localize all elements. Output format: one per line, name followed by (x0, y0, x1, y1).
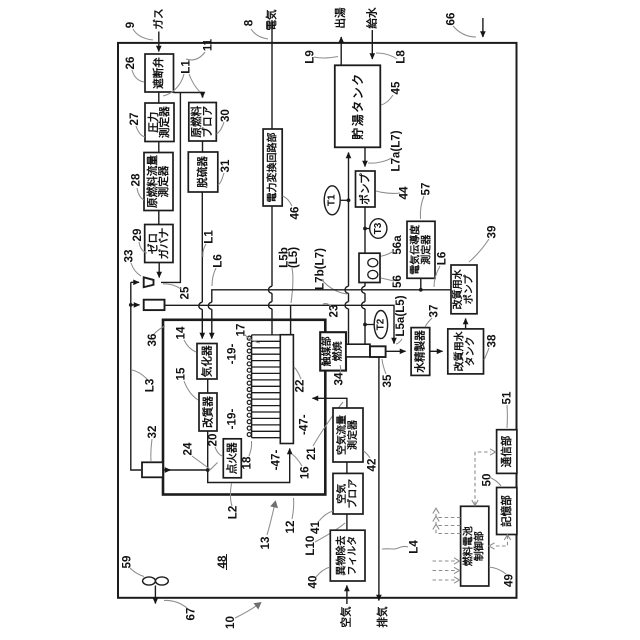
leader 12 (292, 498, 294, 519)
leader 50 (489, 477, 501, 486)
leader L1 to branch (189, 74, 200, 92)
leader 35 (382, 359, 386, 374)
svg-text:T1: T1 (327, 194, 338, 206)
wire L6 water line from pump 39 to vaporizer (212, 290, 451, 339)
wire L7a pump down to heat exchanger (bumps over L6,L5b) (364, 207, 366, 344)
wire 57 down to L6 (420, 278, 422, 289)
wire 37 to 38 (arrow) (430, 350, 443, 352)
svg-text:48: 48 (216, 555, 229, 568)
leader 13 (267, 501, 276, 535)
air flow meter box 42 空気流量測定器 (333, 408, 363, 462)
svg-text:31: 31 (219, 159, 232, 172)
svg-text:L1: L1 (180, 60, 193, 74)
heat exchanger neck (346, 344, 370, 357)
svg-text:45: 45 (390, 81, 403, 94)
svg-text:電力変換回路部: 電力変換回路部 (266, 133, 279, 203)
air filter box 32 (142, 462, 163, 477)
svg-text:改質用水: 改質用水 (453, 330, 466, 371)
leader 27 (136, 126, 145, 137)
svg-text:空気流量: 空気流量 (335, 415, 348, 455)
leader 15 (184, 381, 198, 400)
svg-text:電気伝導度: 電気伝導度 (408, 224, 421, 275)
leader 22 (294, 367, 301, 379)
svg-text:ポンプ: ポンプ (359, 173, 372, 205)
svg-text:出湯: 出湯 (334, 7, 347, 29)
wire L1 from 31 down into vaporizer 14 (bump over L5b) (201, 192, 203, 339)
svg-text:L5a(L5): L5a(L5) (394, 295, 407, 336)
svg-text:26: 26 (124, 56, 137, 69)
svg-text:30: 30 (219, 109, 232, 122)
leader 38 (484, 348, 489, 360)
svg-text:通信部: 通信部 (500, 435, 513, 467)
vaporizer box 14 気化器 (197, 344, 217, 380)
leader 25 (163, 284, 181, 289)
wire 14 to 15 (207, 379, 209, 393)
wire feed water L8 (arrow down into tank) (371, 30, 373, 59)
wire air feed into valve 33 from L3 (131, 281, 139, 283)
svg-text:L4: L4 (408, 540, 421, 554)
wire L7b return line heat exchanger to tank (bumps) (348, 154, 350, 345)
dashed link 49-50 (493, 536, 508, 547)
svg-text:38: 38 (486, 334, 499, 347)
reforming water pump box 39 改質用水ポンプ (451, 265, 477, 314)
svg-text:35: 35 (381, 374, 394, 387)
svg-text:18: 18 (241, 456, 254, 469)
svg-text:点火器: 点火器 (226, 442, 239, 474)
power conversion circuit box 46 電力変換回路部 (263, 129, 282, 206)
svg-text:測定器: 測定器 (158, 106, 171, 138)
svg-text:ポンプ: ポンプ (462, 274, 475, 305)
leader 56 (381, 278, 394, 281)
svg-text:9: 9 (124, 21, 137, 28)
leader 33 (131, 263, 141, 276)
leader 21 (313, 402, 343, 446)
svg-text:29: 29 (131, 228, 144, 241)
leader 59 (130, 568, 144, 577)
leader 36 (154, 326, 165, 334)
combustion catalyst box 34 燃焼触媒部 (320, 332, 346, 370)
fuel cell module case 12 (163, 320, 325, 495)
svg-text:測定器: 測定器 (157, 165, 170, 197)
leader 23 (323, 304, 331, 306)
leader 66 (453, 26, 476, 37)
svg-text:タンク: タンク (465, 336, 477, 366)
leader 14 (184, 340, 196, 352)
svg-text:L7a(L7): L7a(L7) (390, 130, 403, 171)
wire 26 to 27 (158, 92, 160, 103)
leader L1 to main line (163, 74, 184, 96)
exhaust port 35 (370, 346, 386, 357)
leader L6 (212, 268, 216, 286)
svg-text:17: 17 (235, 324, 248, 337)
sensor T2 (374, 311, 387, 339)
sensor T3 (370, 219, 387, 239)
leader L5a (396, 339, 402, 344)
svg-text:49: 49 (503, 574, 516, 587)
leader 45 (381, 95, 393, 105)
svg-text:L3: L3 (144, 378, 157, 392)
wire stub to T1 (340, 199, 349, 201)
svg-text:50: 50 (481, 474, 494, 487)
leader 41 (319, 511, 333, 521)
svg-text:21: 21 (305, 447, 318, 460)
zero governor box 29 ゼロガバナ (145, 225, 173, 263)
svg-text:57: 57 (420, 183, 433, 196)
node junction fuel/air mix (206, 468, 210, 472)
wire 41 to 42 (346, 462, 348, 473)
wire ignition air line from filter 32 (163, 469, 208, 471)
wire electric line from stack top to power converter (271, 20, 273, 129)
svg-text:記憶部: 記憶部 (500, 495, 513, 527)
leader 51 (506, 405, 508, 428)
igniter box 20 点火器 (223, 439, 241, 478)
svg-text:L8: L8 (395, 50, 408, 64)
leader L2 (230, 484, 232, 507)
wire air line from 42 into module (arrow left) (314, 398, 347, 408)
wire tank 38 to pump 39 (arrow up) (465, 319, 467, 329)
water purifier box 37 水精製器 (411, 328, 430, 376)
svg-text:22: 22 (294, 380, 307, 393)
leader 24 (192, 456, 218, 470)
svg-text:触媒部: 触媒部 (320, 336, 333, 367)
svg-text:燃焼: 燃焼 (331, 341, 344, 361)
node T1 junction (347, 198, 351, 202)
dashed link 49-51 (475, 452, 491, 505)
svg-text:T3: T3 (373, 222, 384, 234)
leader L7a (368, 158, 392, 163)
wire 27 to 28 (158, 142, 160, 153)
wire exhaust riser from stack top to L5b line (290, 305, 292, 334)
svg-text:32: 32 (146, 426, 159, 439)
wire tank to pump 44 (364, 147, 366, 166)
wire 29 down to nozzle 25 (arrow) (158, 263, 160, 278)
pressure meter box 27 圧力測定器 (145, 103, 174, 142)
leader 42 (364, 451, 371, 458)
svg-text:16: 16 (299, 466, 312, 479)
shutoff valve box 26 遮断弁 (145, 54, 174, 92)
leader L7b (322, 280, 347, 294)
svg-text:L7b(L7): L7b(L7) (314, 248, 327, 290)
svg-text:11: 11 (202, 38, 215, 51)
svg-text:L10: L10 (304, 536, 317, 556)
air blower box 41 空気ブロア (333, 473, 363, 514)
leader L9 (314, 57, 338, 59)
svg-text:T2: T2 (375, 318, 386, 330)
wire air inlet 空気 (arrow up into filter) (346, 586, 348, 605)
sensor T1 (324, 186, 340, 215)
leader 29 (139, 242, 147, 253)
svg-text:(L5): (L5) (287, 247, 300, 268)
svg-text:13: 13 (259, 536, 272, 549)
svg-text:ブロア: ブロア (346, 479, 359, 509)
svg-text:給水: 給水 (365, 7, 378, 29)
hot water storage tank 45 貯湯タンク (335, 65, 381, 147)
svg-text:気化器: 気化器 (200, 345, 213, 378)
leader 40 (316, 567, 330, 577)
wire exhaust outlet line L4 down to 排気 (378, 357, 380, 599)
wire from L3 node into box 25 (arrow) (131, 304, 140, 306)
fuel cell stack teeth (cells 19) (252, 335, 281, 438)
wire stub to T3 (365, 228, 370, 230)
svg-text:-19-: -19- (225, 344, 238, 365)
reforming water tank box 38 改質用水タンク (448, 329, 484, 374)
leader 17 (244, 334, 260, 343)
leader 44 (376, 191, 400, 193)
svg-text:貯湯タンク: 貯湯タンク (350, 72, 365, 140)
fuel blower box 30 原燃料ブロア (189, 103, 217, 142)
wire vent arrow out bottom (154, 586, 156, 604)
leader L1 second (203, 244, 206, 257)
leader 46 (283, 196, 293, 206)
fuel cell stack body 17 (280, 335, 293, 444)
leader 30 (217, 122, 225, 134)
svg-text:脱硫器: 脱硫器 (196, 156, 209, 188)
node T3 junction (363, 227, 367, 231)
svg-text:51: 51 (501, 391, 514, 404)
wire L1 branch from valve outlet to fuel blower 30 (174, 93, 203, 98)
wire hot water out L9 (arrow up) (340, 37, 342, 65)
svg-text:59: 59 (121, 555, 134, 568)
wire reformed fuel from 15 to stack bottom (208, 431, 290, 483)
svg-text:40: 40 (307, 576, 320, 589)
svg-text:フィルタ: フィルタ (347, 536, 359, 576)
svg-text:L2: L2 (227, 506, 240, 520)
wire gas inlet into valve 26 (158, 32, 160, 52)
svg-text:測定器: 測定器 (419, 234, 432, 265)
wire stub to T2 (365, 324, 374, 326)
node on L6 (419, 288, 423, 292)
svg-text:L6: L6 (436, 251, 449, 265)
svg-text:28: 28 (130, 173, 143, 186)
outer case border (66) (118, 43, 517, 598)
wire L3 vertical line (131, 282, 141, 470)
svg-text:33: 33 (123, 249, 136, 262)
leader 39 (469, 239, 489, 262)
leader 11 (186, 52, 205, 60)
mixer box (component on gas line) (144, 300, 165, 310)
svg-text:23: 23 (328, 304, 341, 317)
svg-text:15: 15 (175, 367, 188, 380)
svg-text:異物除去: 異物除去 (335, 536, 348, 576)
svg-text:24: 24 (182, 442, 195, 455)
wire L5b/L2 long horizontal gas-exhaust line (165, 305, 395, 343)
raw fuel flow meter box 28 原燃料流量測定器 (144, 153, 173, 211)
svg-text:20: 20 (207, 434, 220, 447)
ejector valve 33 (trapezoid) (144, 277, 154, 287)
svg-text:L1: L1 (203, 230, 216, 244)
wire 40 to 41 (346, 514, 348, 530)
wire 30 to 31 (202, 141, 204, 152)
fuel cell controller box 49 燃料電池制御部 (461, 506, 489, 586)
svg-text:L6: L6 (212, 254, 225, 268)
svg-text:39: 39 (486, 225, 499, 238)
svg-text:-47-: -47- (270, 450, 283, 471)
memory box 50 記憶部 (497, 488, 517, 535)
pump box 44 ポンプ (356, 171, 376, 207)
svg-text:12: 12 (284, 521, 297, 534)
leader 8 (251, 29, 268, 39)
svg-text:67: 67 (185, 608, 198, 621)
svg-text:空気: 空気 (335, 484, 348, 504)
arrow 66 pointing at case top (482, 18, 484, 37)
svg-text:27: 27 (128, 113, 141, 126)
leader L10 (315, 523, 345, 542)
node junction on L3 (129, 303, 133, 307)
svg-text:改質器: 改質器 (201, 396, 214, 428)
svg-text:37: 37 (428, 305, 441, 318)
leader 10 (235, 603, 261, 619)
leader 34 (339, 365, 342, 373)
leader 57 (420, 196, 424, 219)
leader 16 (292, 454, 302, 466)
leader L6 second (434, 266, 440, 287)
svg-text:14: 14 (175, 326, 188, 339)
leader 37 (425, 318, 432, 327)
conductivity meter box 57 電気伝導度測定器 (407, 221, 435, 278)
fuel cell stack manifold line (251, 335, 253, 438)
svg-text:42: 42 (366, 459, 379, 472)
svg-text:34: 34 (333, 372, 346, 385)
communication box 51 通信部 (497, 430, 517, 474)
leader L4 (382, 546, 408, 549)
svg-text:ガバナ: ガバナ (158, 228, 171, 260)
wire exhaust from 35 to water purifier 37 (386, 350, 406, 352)
leader 49 (489, 567, 506, 574)
reformer box 15 改質器 (199, 393, 217, 431)
leader 20 (215, 447, 223, 457)
leader 18 (249, 441, 252, 456)
leader 28 (137, 188, 144, 200)
svg-text:36: 36 (146, 333, 159, 346)
svg-text:空気: 空気 (340, 606, 353, 628)
svg-text:ガス: ガス (152, 8, 165, 29)
leader L8 (376, 53, 397, 59)
leader 31 (218, 173, 224, 185)
dashed control output stubs (upper) (436, 511, 461, 534)
dashed sensor input stubs (lower) (433, 561, 458, 580)
svg-text:排気: 排気 (376, 606, 389, 628)
wire 28 to 29 (158, 211, 160, 225)
svg-text:燃料電池: 燃料電池 (462, 526, 475, 566)
svg-text:66: 66 (445, 12, 458, 25)
wire L1 bypass down to nozzle junction (161, 93, 180, 283)
leader 9 (133, 29, 153, 40)
leader 32 (151, 439, 152, 461)
svg-text:8: 8 (243, 19, 256, 26)
leader 26 (132, 70, 144, 82)
svg-text:46: 46 (289, 206, 302, 219)
node T2 junction (363, 323, 367, 327)
leader L5b (291, 268, 293, 303)
leader L3 (132, 370, 147, 379)
fuel cell stack cell nozzles (247, 336, 251, 340)
ventilation fan 59 (143, 577, 156, 585)
foreign matter filter box 40 異物除去フィルタ (330, 530, 365, 581)
svg-text:水精製器: 水精製器 (414, 330, 427, 373)
svg-text:ブロア: ブロア (201, 105, 214, 137)
svg-text:遮断弁: 遮断弁 (152, 57, 165, 89)
svg-text:-47-: -47- (298, 414, 311, 435)
svg-text:測定器: 測定器 (346, 419, 359, 450)
desulfurizer box 31 脱硫器 (188, 152, 218, 192)
svg-text:制御部: 制御部 (473, 531, 486, 561)
svg-text:41: 41 (309, 521, 322, 534)
leader 56a (379, 251, 394, 257)
conductivity cell 56 (359, 253, 380, 282)
leader 67 (164, 600, 187, 608)
svg-text:改質用水: 改質用水 (451, 268, 464, 309)
svg-text:-19-: -19- (225, 409, 238, 430)
